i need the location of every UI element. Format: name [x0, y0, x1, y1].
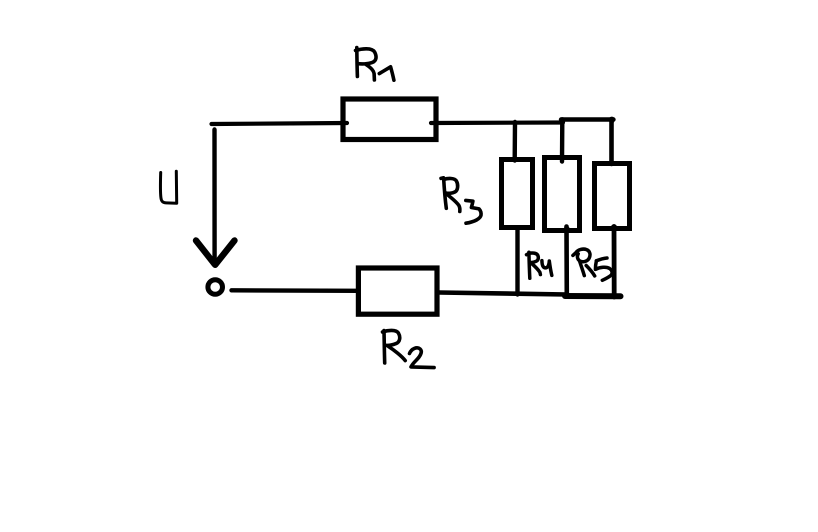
label R2: [383, 330, 435, 367]
resistor R2: [358, 268, 437, 314]
wire: bottom rail left (circle to R2): [232, 288, 359, 293]
resistor R5: [595, 164, 630, 229]
wire: drop to R3 top: [513, 122, 518, 161]
resistor R3: [502, 160, 533, 228]
wire: R4 bottom to bottom rail: [564, 227, 569, 297]
wire: right corner drop to R5 top: [609, 120, 614, 164]
wire: R5 bottom to bottom rail: [612, 227, 617, 298]
label U: [160, 171, 176, 203]
node A: junction dot top of R4 branch: [559, 117, 565, 123]
arrowhead of source arrow: [196, 241, 235, 265]
terminal circle node: [208, 280, 223, 295]
resistor R1: [343, 99, 436, 140]
wire: vertical shaft of source arrow: [212, 130, 217, 266]
node B: junction dot top-right corner: [609, 117, 615, 123]
wire: drop to R4 top: [560, 120, 565, 162]
wire: R1 right to parallel section: [431, 120, 563, 125]
node C: junction dot at R4 bottom: [564, 226, 570, 232]
label R4: [527, 252, 552, 278]
wire: top wire from source node to R1 left: [212, 123, 348, 124]
node D: junction dot at R5 bottom: [611, 224, 617, 230]
label R5: [573, 249, 612, 280]
wire: bottom rail middle (R2 to parallel section): [439, 293, 567, 295]
label R3: [441, 178, 481, 223]
label R1: [356, 48, 394, 81]
wire: top jog segment over R4/R5: [561, 117, 614, 121]
wire: bottom rail right end: [565, 293, 621, 299]
wire: R3 bottom to bottom rail: [515, 228, 519, 295]
resistor R4: [545, 158, 580, 231]
